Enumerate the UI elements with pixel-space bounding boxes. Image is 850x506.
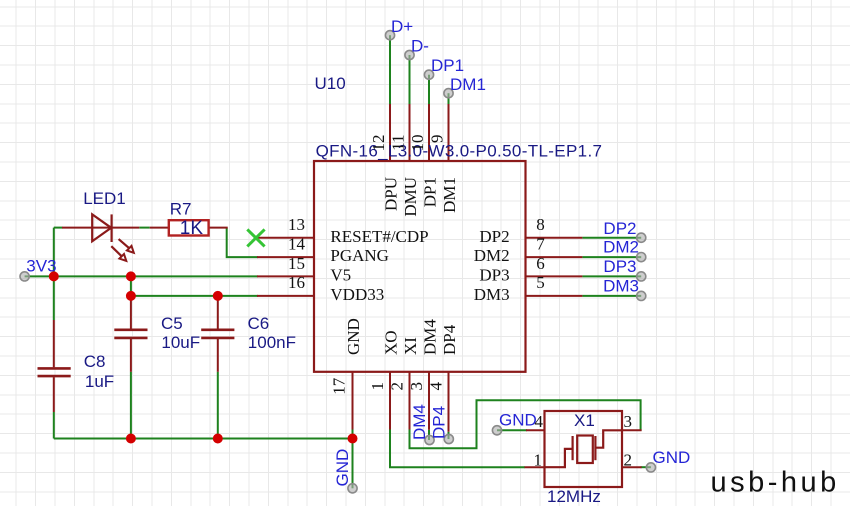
C8 bottom pin <box>53 377 55 412</box>
svg-text:XI: XI <box>401 337 420 355</box>
svg-text:5: 5 <box>536 273 545 292</box>
port D+ <box>385 31 394 40</box>
svg-text:C5: C5 <box>161 314 183 333</box>
wire GND drop pin17 <box>352 429 354 488</box>
pin 5 stub DM3 <box>526 295 583 297</box>
pin 6 stub DP3 <box>526 275 583 277</box>
svg-text:VDD33: VDD33 <box>330 285 384 304</box>
node rail2 x131 <box>126 291 136 301</box>
svg-text:9: 9 <box>427 135 446 144</box>
svg-text:PGANG: PGANG <box>330 246 389 265</box>
junction dots <box>49 271 358 443</box>
svg-text:DM4: DM4 <box>410 404 429 440</box>
pin 1 stub XO <box>389 372 391 430</box>
wire DP3 <box>582 275 641 277</box>
svg-text:DP1: DP1 <box>421 177 440 207</box>
svg-text:GND: GND <box>344 318 363 355</box>
wire rail link x130.9 <box>130 276 132 297</box>
svg-text:1K: 1K <box>180 218 204 239</box>
resistor R1=R7 body <box>169 220 209 235</box>
svg-text:DP4: DP4 <box>430 406 449 439</box>
pin 10 stub DP1 <box>428 104 430 161</box>
LED1 anode pin <box>62 227 111 229</box>
svg-text:DM2: DM2 <box>603 238 639 257</box>
pin 16 stub <box>257 295 314 297</box>
wire ground rail bottom <box>54 438 353 440</box>
wire LED row horizontal <box>54 227 63 229</box>
svg-text:GND: GND <box>653 448 691 467</box>
svg-text:D-: D- <box>411 37 429 56</box>
svg-text:13: 13 <box>288 215 305 234</box>
port DP4 <box>444 434 453 443</box>
svg-text:16: 16 <box>288 273 305 292</box>
svg-text:R7: R7 <box>170 200 192 219</box>
crystal pin 2 stub <box>622 466 642 468</box>
port DM2 <box>637 253 646 262</box>
port 3V3 <box>20 272 29 281</box>
svg-text:C6: C6 <box>248 314 270 333</box>
svg-text:2: 2 <box>388 382 407 391</box>
svg-text:12: 12 <box>369 135 388 152</box>
svg-text:DP2: DP2 <box>479 227 509 246</box>
svg-text:usb-hub: usb-hub <box>711 466 840 498</box>
svg-text:3V3: 3V3 <box>26 257 56 276</box>
pin 12 stub DPU <box>389 104 391 161</box>
no-connect X on pin13 <box>247 229 264 246</box>
capacitor C8 plates <box>38 368 71 376</box>
C5 bottom pin <box>130 339 132 372</box>
node rail2 x218 <box>213 291 223 301</box>
C6 top pin <box>217 297 219 329</box>
svg-text:DMU: DMU <box>401 177 420 217</box>
wire C6 bottom <box>217 372 219 439</box>
wire LED-R7 gap <box>139 227 149 229</box>
pin 17 stub GND <box>352 372 354 430</box>
svg-text:DP4: DP4 <box>440 324 459 355</box>
svg-text:17: 17 <box>330 377 349 395</box>
crystal pin 3 stub <box>622 429 642 431</box>
wire XI to crystal pin3 <box>410 400 641 448</box>
svg-text:LED1: LED1 <box>83 189 126 208</box>
svg-text:4: 4 <box>427 381 446 390</box>
svg-text:15: 15 <box>288 254 305 273</box>
wire vertical left rail x53.8 <box>53 228 55 320</box>
port DP3 <box>637 272 646 281</box>
pin 4 stub DP4 <box>448 372 450 432</box>
pin 2 stub XI <box>409 372 411 430</box>
svg-text:8: 8 <box>536 215 545 234</box>
wire 3V3 rail to pin15 <box>25 275 258 277</box>
svg-text:D+: D+ <box>391 17 413 36</box>
svg-text:1: 1 <box>368 382 387 391</box>
crystal pin 1 stub <box>525 466 545 468</box>
svg-text:6: 6 <box>536 254 545 273</box>
node gndrail x352 <box>348 434 358 444</box>
node 3V3/left <box>49 271 59 281</box>
port GND4 <box>492 426 501 435</box>
port DM3 <box>637 291 646 300</box>
svg-text:XO: XO <box>382 330 401 355</box>
svg-text:100nF: 100nF <box>248 333 296 352</box>
svg-text:1: 1 <box>534 451 543 470</box>
svg-text:RESET#/CDP: RESET#/CDP <box>330 227 428 246</box>
wire DP2 <box>582 237 641 239</box>
port D- <box>405 50 414 59</box>
crystal pin 4 stub <box>526 429 545 431</box>
wire rail2 to pin16 <box>131 295 258 297</box>
pin 8 stub DP2 <box>526 237 583 239</box>
svg-text:DM3: DM3 <box>603 276 639 295</box>
port GND crystal <box>646 463 655 472</box>
svg-text:DM4: DM4 <box>421 319 440 355</box>
svg-text:1uF: 1uF <box>85 372 114 391</box>
C8 top pin <box>53 320 55 367</box>
svg-text:DM3: DM3 <box>474 285 510 304</box>
capacitor C6 plates <box>201 330 234 338</box>
C5 top pin <box>130 297 132 329</box>
node gndrail x131 <box>126 434 136 444</box>
net flag circles <box>20 31 656 493</box>
port GND bottom <box>348 484 357 493</box>
svg-text:14: 14 <box>288 234 306 253</box>
wire XO to crystal pin1 <box>390 429 525 467</box>
wire GND4 to crystal pin4 <box>497 429 527 431</box>
svg-text:C8: C8 <box>84 352 106 371</box>
wire DP1 <box>428 75 430 105</box>
port DM4 <box>425 435 434 444</box>
port DP1 <box>424 70 433 79</box>
pin 15 stub <box>257 275 314 277</box>
svg-text:2: 2 <box>624 451 633 470</box>
svg-text:DM2: DM2 <box>474 246 510 265</box>
wire crystal pin2 to GND flag <box>641 466 651 468</box>
svg-text:3: 3 <box>407 382 426 391</box>
pin 3 stub DM4 <box>428 372 430 430</box>
pin 11 stub DMU <box>409 104 411 161</box>
svg-text:DP3: DP3 <box>603 257 636 276</box>
svg-text:10: 10 <box>408 135 427 152</box>
LED1 symbol <box>92 214 134 261</box>
wire C8 bottom to ground rail <box>53 412 55 439</box>
pin 13 stub <box>257 237 314 239</box>
wire D+ <box>389 35 391 105</box>
pin 14 stub <box>257 256 314 258</box>
port DM1 <box>444 89 453 98</box>
svg-text:4: 4 <box>535 412 544 431</box>
wire DM1 <box>448 93 450 105</box>
crystal X1 body <box>545 411 623 487</box>
wire C5 bottom <box>130 372 132 439</box>
svg-text:QFN-16_L3.0-W3.0-P0.50-TL-EP1.: QFN-16_L3.0-W3.0-P0.50-TL-EP1.7 <box>316 142 603 161</box>
R7 left pin <box>150 227 169 229</box>
wire R7 to pin14 <box>227 228 258 258</box>
LED1 cathode pin <box>112 227 140 229</box>
wire DM4 drop <box>428 430 430 440</box>
capacitor C5 plates <box>114 330 147 338</box>
wire DP4 drop <box>448 432 450 439</box>
svg-text:DM1: DM1 <box>450 75 486 94</box>
svg-text:DP3: DP3 <box>479 266 509 285</box>
svg-text:GND: GND <box>499 411 537 430</box>
svg-text:X1: X1 <box>574 411 595 430</box>
svg-text:GND: GND <box>333 449 352 487</box>
pin 7 stub DM2 <box>526 256 583 258</box>
node rail1 x131 <box>126 271 136 281</box>
node gndrail x218 <box>213 434 223 444</box>
svg-text:DPU: DPU <box>382 177 401 211</box>
wire DM2 <box>582 256 641 258</box>
svg-text:3: 3 <box>624 412 633 431</box>
IC U10 body <box>314 161 526 372</box>
wire DM3 <box>582 295 641 297</box>
svg-text:DM1: DM1 <box>440 177 459 213</box>
pin 9 stub DM1 <box>448 104 450 161</box>
svg-text:7: 7 <box>536 234 545 253</box>
svg-text:V5: V5 <box>330 266 351 285</box>
svg-text:U10: U10 <box>315 74 346 93</box>
svg-text:10uF: 10uF <box>161 333 200 352</box>
R7 right pin <box>209 227 228 229</box>
svg-text:DP2: DP2 <box>603 219 636 238</box>
svg-text:11: 11 <box>388 135 407 151</box>
C6 bottom pin <box>217 339 219 372</box>
wire D- <box>409 55 411 105</box>
svg-text:12MHz: 12MHz <box>547 487 601 506</box>
svg-text:DP1: DP1 <box>431 56 464 75</box>
port DP2 <box>637 233 646 242</box>
